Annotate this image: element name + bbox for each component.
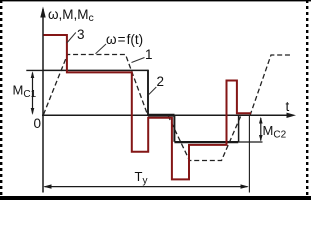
svg-text:3: 3: [77, 27, 85, 42]
axis Y line: [42, 9, 44, 193]
svg-text:ω = f(t): ω = f(t): [106, 32, 143, 47]
leader for 2: [149, 87, 157, 95]
leader for omega=f(t): [96, 44, 107, 54]
svg-text:t: t: [286, 99, 290, 114]
leader for 1: [132, 58, 145, 63]
Mc2 extension to dim arrow: [238, 141, 262, 143]
Mc step down at t1: [147, 70, 149, 115]
omega dashed curve: forward accel and final run: [250, 55, 291, 116]
Mc zero thick segment: [148, 114, 175, 117]
svg-text:Ty: Ty: [135, 169, 148, 187]
Mc1 dimension arrow: [32, 73, 34, 114]
Mc step down to -Mc2: [173, 115, 175, 142]
Mc2 dimension arrow: [260, 118, 262, 141]
Ty dimension line: [45, 186, 248, 188]
svg-text:1: 1: [145, 47, 153, 62]
svg-text:ω,M,Mc: ω,M,Mc: [48, 7, 94, 24]
svg-text:MC2: MC2: [263, 123, 287, 141]
axis Y arrowhead: [40, 7, 45, 18]
Mc load torque line 2: Mc1 level: [43, 69, 149, 71]
omega dashed curve: accel, run, decel: [44, 55, 148, 115]
border top: [0, 0, 311, 1]
axis T arrowhead: [287, 113, 297, 118]
M motor torque curve 3 (dark red stepped): [44, 35, 252, 179]
border bottom: [0, 196, 311, 200]
leader for 3: [67, 33, 76, 44]
Mc2 level line: [174, 141, 238, 143]
Ty right extension line: [248, 116, 250, 193]
omega dashed curve: reverse accel, reverse run, reverse decel: [168, 116, 241, 161]
border left dashed: [0, 0, 2, 200]
axis T line: [42, 114, 293, 116]
svg-text:2: 2: [157, 74, 165, 89]
Mc step up to zero: [238, 116, 240, 143]
svg-text:0: 0: [34, 116, 42, 131]
border right dashed: [306, 0, 308, 200]
Mc1 extension line: [26, 69, 43, 71]
